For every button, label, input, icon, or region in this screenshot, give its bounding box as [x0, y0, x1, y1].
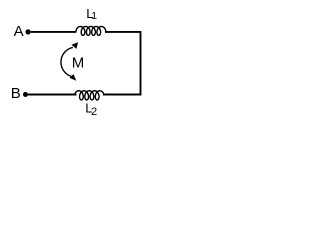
svg-text:A: A	[14, 23, 24, 40]
svg-text:2: 2	[91, 106, 97, 118]
svg-text:M: M	[72, 54, 85, 71]
svg-text:B: B	[11, 85, 21, 102]
svg-text:1: 1	[91, 10, 97, 22]
